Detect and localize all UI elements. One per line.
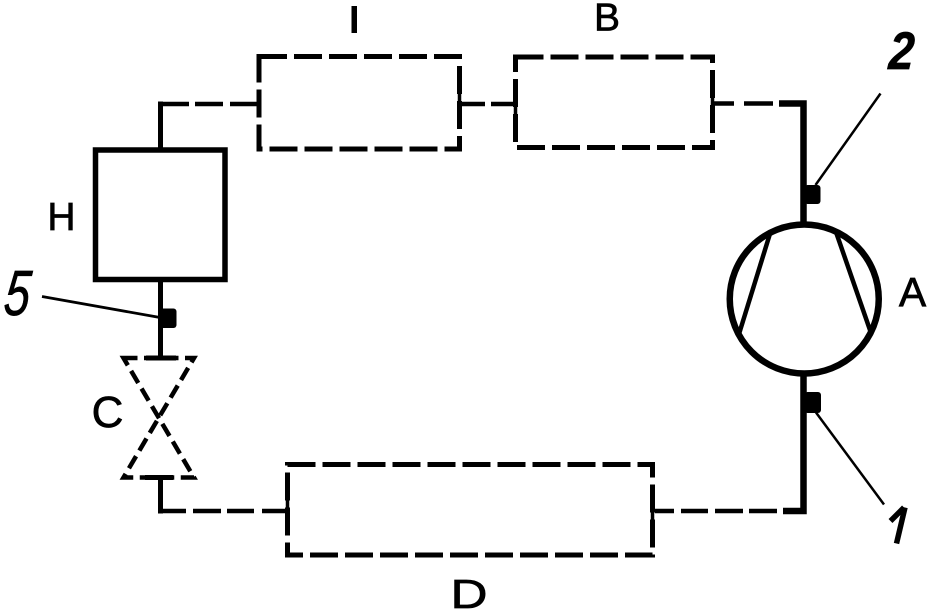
wire: compressor bottom to corner (783, 372, 804, 511)
wire: left corner vertical up to valve bottom (158, 478, 163, 514)
box H (solid component box) (96, 150, 226, 280)
node stub at box D left (286, 497, 290, 523)
node stub at box I right (458, 91, 462, 117)
label I (352, 6, 358, 33)
box D (dashed component box) (288, 465, 653, 556)
wire: box D left to left corner (dashed) (158, 509, 186, 514)
wire: H to box I horizontal (solid then dashes) (158, 102, 189, 107)
sensor 1 (black square on wire) (805, 392, 822, 413)
sensor 2 (black square on wire) (805, 185, 821, 204)
svg-text:D: D (450, 571, 487, 615)
leader line 5 (42, 297, 160, 318)
svg-text:2: 2 (886, 22, 916, 81)
node stub at box D right (651, 497, 655, 526)
svg-text:A: A (899, 269, 927, 315)
box I (dashed component box) (259, 57, 460, 150)
leader line 2 (816, 94, 881, 186)
compressor left chord (739, 232, 771, 334)
node stub at box B right (711, 91, 715, 117)
wire: H top vertical (158, 102, 163, 150)
wire: H bottom to valve top (158, 281, 163, 359)
node stub at box B left (514, 91, 518, 117)
valve bottom T-bar (145, 475, 173, 480)
box B (dashed component box) (516, 57, 713, 148)
svg-text:C: C (92, 388, 124, 437)
expansion valve C (dashed hourglass) (124, 358, 195, 478)
wire: box I to box B (460, 102, 486, 107)
compressor right chord (837, 234, 871, 332)
svg-text:H: H (47, 196, 75, 239)
wire: corner to box D right (dashed) (655, 509, 674, 514)
label 1 (891, 508, 906, 544)
svg-text:B: B (594, 0, 620, 40)
sensor 5 (black square on wire) (160, 309, 177, 329)
wire: box B to right corner (714, 101, 734, 106)
compressor A (circle) (730, 225, 879, 374)
leader line 1 (816, 413, 884, 505)
node stub at box I left (257, 91, 261, 117)
valve top T-bar (146, 356, 176, 361)
